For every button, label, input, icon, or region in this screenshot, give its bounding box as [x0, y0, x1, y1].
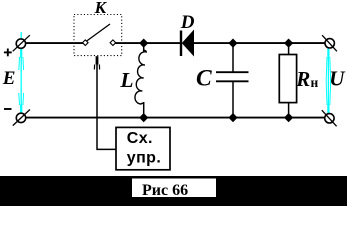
EMF arrow E (cyan double-headed) [19, 32, 24, 115]
terminal bottom-left [13, 110, 30, 126]
svg-text:L: L [119, 68, 133, 92]
caption white box [132, 179, 216, 198]
terminal top-right [322, 35, 337, 51]
output voltage arrow U (cyan double-headed) [326, 48, 330, 114]
switch contact right [110, 40, 116, 46]
node: junction top of L [139, 39, 148, 48]
wire bottom rail [26, 117, 326, 119]
svg-text:н: н [311, 75, 319, 90]
node: junction top of C [228, 39, 237, 48]
node: junction top of R [284, 39, 293, 48]
switch K dotted box [74, 15, 122, 56]
node: junction bottom of L [139, 113, 148, 122]
wire R branch bottom stub [288, 103, 290, 118]
wire top rail: terminal to switch left contact [25, 42, 83, 44]
diode D cathode bar [180, 31, 182, 57]
svg-text:Рис 66: Рис 66 [142, 182, 188, 199]
diode D triangle [182, 30, 194, 57]
wire C branch bottom stub [232, 81, 234, 117]
svg-text:E: E [2, 68, 16, 89]
capacitor C top plate [216, 71, 249, 73]
svg-text:упр.: упр. [127, 149, 161, 166]
inductor L coil [135, 50, 146, 104]
resistor R body [279, 55, 296, 103]
wire top rail: switch right contact to diode cathode bar [115, 42, 181, 44]
wire R branch top stub [288, 43, 290, 54]
caption black bar [0, 176, 347, 206]
wire L branch bottom stub [143, 102, 145, 118]
node: junction bottom of C [228, 113, 237, 122]
terminal bottom-right [322, 110, 337, 126]
svg-text:U: U [329, 67, 346, 91]
svg-text:К: К [94, 0, 108, 17]
wire L branch top stub [143, 43, 145, 51]
svg-text:R: R [295, 67, 310, 91]
svg-text:Сх.: Сх. [127, 130, 153, 147]
node: junction bottom of R [284, 113, 293, 122]
switch contact left [83, 40, 89, 46]
switch blade [86, 24, 110, 42]
svg-text:C: C [196, 66, 212, 92]
wire C branch top stub [232, 43, 234, 72]
minus sign [4, 108, 12, 110]
capacitor C bottom plate [216, 80, 249, 82]
terminal top-left [13, 35, 30, 51]
wire top rail: diode to right terminal [194, 42, 326, 44]
plus sign [4, 49, 12, 57]
control box [116, 127, 170, 169]
svg-text:D: D [180, 12, 195, 33]
control line to switch with up arrow [97, 58, 116, 149]
arrowhead up at switch [94, 56, 99, 69]
